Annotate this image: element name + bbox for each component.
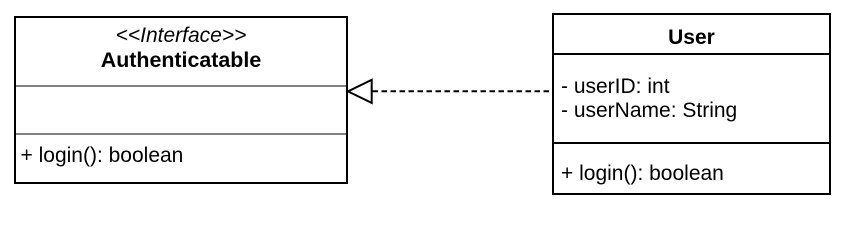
attribute label - userName: String [561, 99, 737, 123]
hollow triangle arrowhead [348, 80, 372, 103]
attribute label - userID: int [561, 75, 670, 99]
method label + login(): boolean (User) [561, 162, 724, 186]
class name User [552, 26, 831, 50]
divider line (title/attributes) in User [554, 53, 829, 55]
divider line (title/attributes) in Authenticatable [16, 85, 346, 87]
divider line (attributes/methods) in User [554, 142, 829, 144]
class name Authenticatable [14, 48, 348, 72]
stereotype label <<Interface>> [14, 24, 348, 48]
dashed line [373, 90, 550, 92]
method label + login(): boolean (interface) [21, 144, 184, 168]
divider line (attributes/methods) in Authenticatable [16, 133, 346, 135]
class box User [552, 13, 831, 195]
class box Authenticatable (interface) [14, 16, 348, 184]
